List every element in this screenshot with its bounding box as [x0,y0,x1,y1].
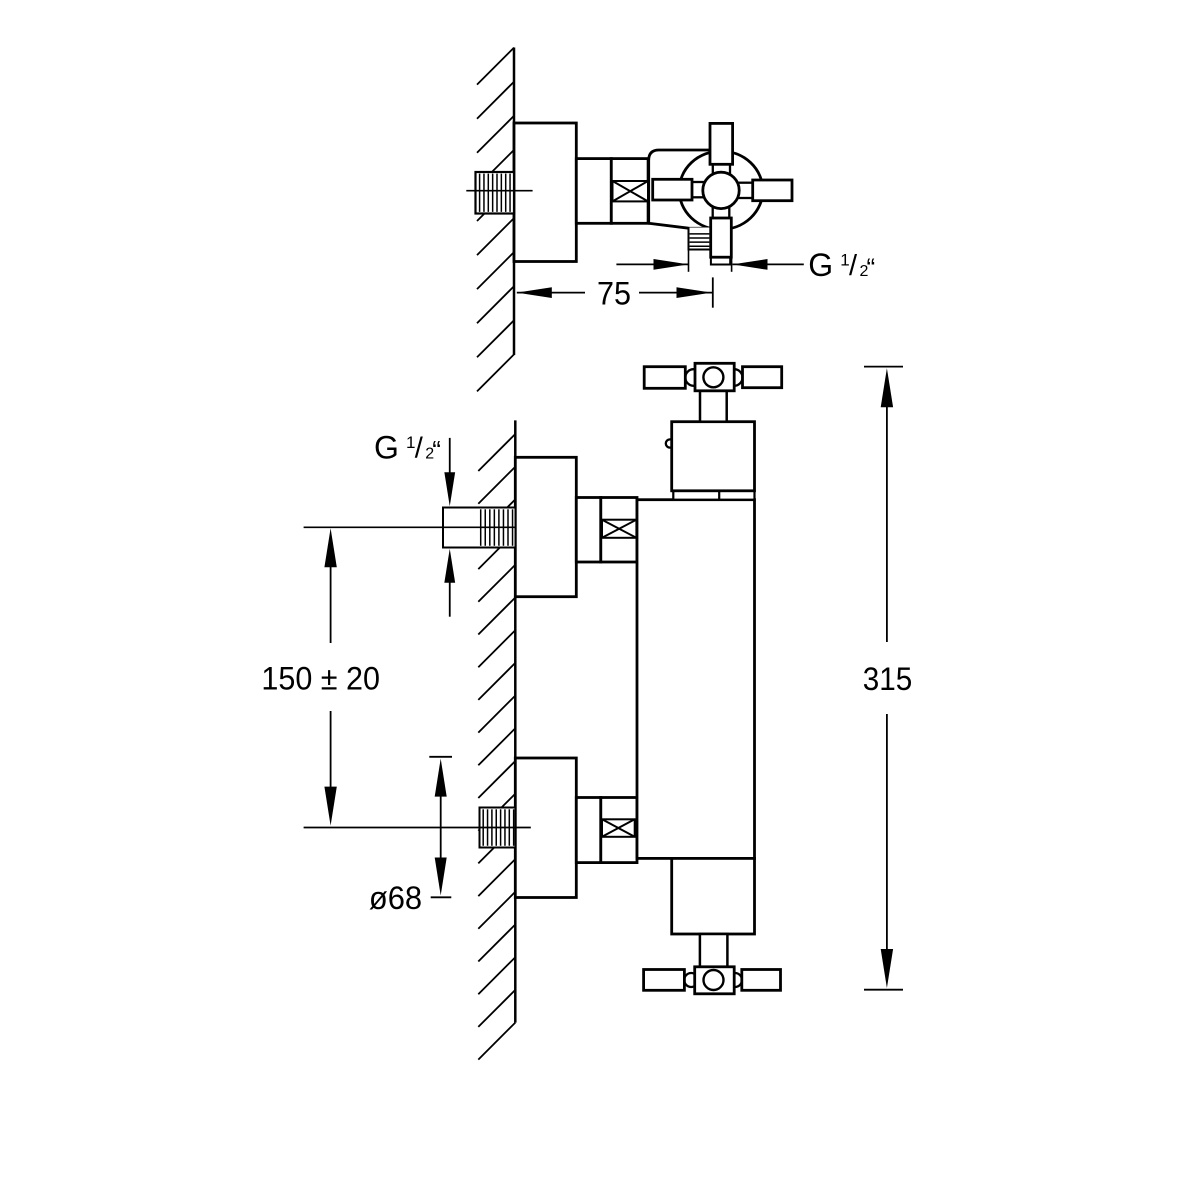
top handle hub cap (front view) [703,367,723,387]
lower union nut (front view) [601,798,637,863]
upper wall flange (front view) [515,457,576,596]
union nut (top view) [611,159,648,224]
wall hatching (front view) [478,434,515,471]
svg-text:G: G [374,429,399,465]
svg-text:/: / [415,433,424,465]
bottom handle neck (front view) [700,934,728,967]
upper connector step (front view) [576,498,601,563]
svg-text:“: “ [867,253,876,283]
bottom handle left spoke ball (front view) [684,973,698,987]
shower outlet thread G1/2 (top view) [689,228,711,250]
wall (top view) [513,48,516,356]
wall (front view) [514,420,517,1022]
bottom handle hub (front view) [695,967,735,994]
threaded inlet G1/2 (top view) [476,172,515,214]
lower union nut seal X (front view) [602,819,635,837]
dimension 315 line [864,366,903,368]
handle top spoke grip (top view) [710,123,733,164]
dimension 150 +/- 20 line [324,528,336,567]
handle right spoke grip (top view) [753,180,792,201]
connector step (top view) [576,159,611,224]
svg-text:“: “ [432,435,441,465]
top handle hub (front view) [695,363,734,391]
lower wall flange (front view) [515,758,576,898]
handle right spoke rod (top view) [737,183,753,198]
top collar (front view) [673,491,754,500]
top handle left spoke ball (front view) [685,369,702,386]
dimension G 1/2 leader (top view) [688,249,690,272]
upper union nut seal X (front view) [602,520,636,538]
handle bottom spoke grip (top view) [711,218,732,257]
thermostat head button (front view) [666,439,673,447]
top handle neck (front view) [700,391,727,422]
svg-text:150 ± 20: 150 ± 20 [261,660,380,696]
wall hatching (top view) [477,48,514,85]
svg-text:ø68: ø68 [369,880,422,916]
handle hub (top view) [703,172,739,208]
lower inlet centerline (front view) [304,827,531,829]
svg-text:/: / [849,250,858,282]
svg-text:315: 315 [863,661,913,697]
dimension 75 (top view) [517,292,585,294]
union nut seal X (top view) [613,181,649,201]
svg-text:G: G [808,247,833,283]
upper inlet pipe G1/2 (front view) [443,508,516,548]
svg-text:75: 75 [597,276,631,312]
bottom head (front view) [672,858,755,934]
thermostat head (front view) [672,422,755,491]
handle left spoke grip (top view) [653,179,692,200]
dimension diameter 68 line [429,756,452,758]
dimension G 1/2 arrows (front view) [449,438,451,473]
valve body (top view) [649,150,726,228]
top handle right spoke ball (front view) [726,369,743,386]
inlet centerline (top view) [466,190,532,192]
wall flange (top view) [514,123,576,262]
handle bottom spoke rod (top view) [713,205,730,219]
bottom handle right spoke ball (front view) [728,973,742,987]
top handle right grip (front view) [743,367,782,388]
lower inlet thread G1/2 (front view) [480,808,516,848]
top handle left grip (front view) [644,367,685,389]
valve body (front view) [637,500,755,859]
bottom handle right grip (front view) [742,970,781,991]
upper union nut (front view) [601,498,637,563]
bottom handle left grip (front view) [644,970,685,991]
bottom handle hub cap (front view) [704,970,724,990]
handle left spoke rod (top view) [691,182,705,197]
lower connector step (front view) [576,798,601,863]
upper inlet centerline (front view) [304,526,517,528]
handle top spoke rod (top view) [713,163,730,177]
handle escutcheon circle (top view) [679,151,763,229]
